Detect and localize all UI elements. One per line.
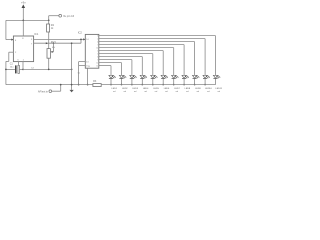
svg-text:red: red [197,90,200,93]
LED LED1 [109,75,113,78]
wire IC1 pin5 stub [18,62,20,66]
svg-text:red: red [207,90,210,93]
capacitor C1 [15,65,17,73]
wire pot bottom [48,58,50,69]
wire C1 left [6,68,15,70]
LED LED4 [140,75,144,78]
wire pot wiper [53,43,55,52]
svg-text:IC1: IC1 [34,32,39,36]
svg-text:LED2: LED2 [122,88,128,90]
junction EN-rail [78,84,80,86]
wire +9V rail [6,19,49,21]
svg-text:LED9: LED9 [195,88,201,90]
svg-text:6: 6 [97,57,98,59]
junction pot-bottom [48,69,50,71]
svg-text:LED4: LED4 [143,88,149,90]
ground [71,85,73,90]
junction pin8-rail [87,84,89,86]
wire pot top [48,43,50,48]
wire line2 drop [71,43,73,84]
LED LED2 [119,75,123,78]
wire bottom mid [23,68,72,70]
svg-text:red: red [134,90,137,93]
svg-text:red: red [186,90,189,93]
svg-text:red: red [165,90,168,93]
svg-text:LED1: LED1 [112,88,118,90]
LED LED3 [130,75,134,78]
LED LED7 [172,75,176,78]
junction LED7-rail [173,84,175,86]
svg-text:7: 7 [97,45,98,47]
junction C1-pin1 [22,69,24,71]
svg-text:5: 5 [97,54,98,56]
resistor R3 [93,84,101,87]
IC U2 4017 counter IC2 box [85,34,99,68]
wire IC2 output Q4 to LED7 [99,47,174,49]
svg-text:red: red [113,90,116,93]
terminal AF ext in [49,90,52,93]
svg-text:red: red [155,90,158,93]
wire IC2 output Q2 to LED9 [99,41,195,43]
LED LED10 [203,75,207,78]
wire bottom rail left [6,84,93,86]
svg-text:LED6: LED6 [164,88,170,90]
svg-text:10u: 10u [10,66,14,68]
potentiometer RV1 body [47,49,50,59]
junction LED8-rail [183,84,185,86]
svg-text:3: 3 [97,36,98,38]
junction line2-drop [71,42,73,44]
wire IC2 pin8 ground [87,68,89,84]
wire C1 right [19,68,23,70]
svg-text:LED5: LED5 [153,88,159,90]
junction LED4-rail [142,84,144,86]
svg-text:R2: R2 [51,24,55,27]
wire IC2 output Q9 to LED2 [99,62,122,64]
junction ground-rail [71,84,73,86]
wire IC2 output Q1 to LED10 [99,38,205,40]
wire IC2 output Q8 to LED3 [99,59,132,61]
svg-text:R3: R3 [93,80,97,83]
svg-text:red: red [144,90,147,93]
LED LED6 [161,75,165,78]
wire IC2 output Q0 to LED11 [99,35,216,37]
svg-text:red: red [123,90,126,93]
wire rail to IC1 reset pin [5,20,7,39]
junction LED6-rail [162,84,164,86]
svg-text:red: red [176,90,179,93]
svg-text:2: 2 [97,39,98,41]
svg-text:10: 10 [96,48,98,50]
wire AF in to rail [52,90,61,92]
svg-text:LED11: LED11 [216,88,223,90]
junction LED5-rail [152,84,154,86]
junction LED1-rail [110,84,112,86]
clock arrowhead [83,38,85,40]
junction LED9-rail [194,84,196,86]
svg-text:+9v: +9v [21,1,26,5]
wire IC2 enable pins [79,61,86,63]
IC U1 555 timer IC1 box [13,36,33,62]
wire IC1 pin2 to bottom rail [9,51,14,53]
junction power-rail [22,20,24,22]
LED LED8 [182,75,186,78]
LED LED9 [193,75,197,78]
LED LED11 [213,75,217,78]
power symbol +9V [22,4,26,8]
svg-text:AF/ext in: AF/ext in [38,89,49,93]
wire IC1 Vcc pin 8 [22,20,24,36]
wire IC1 pin3 to clock [34,38,85,40]
junction AF-rail [60,84,62,86]
junction rail-R2 [48,20,50,22]
junction LED2-rail [121,84,123,86]
svg-text:C1: C1 [10,63,14,66]
wire IC1 pin7 line [34,42,81,44]
wire IC2 output Q10 to LED1 [99,65,111,67]
resistor R2 [47,24,50,32]
junction LED3-rail [131,84,133,86]
svg-text:12: 12 [96,66,98,68]
svg-text:LED3: LED3 [132,88,138,90]
svg-text:0v: 0v [78,72,81,74]
junction mid-drop [71,69,73,71]
wire IC2 output Q3 to LED8 [99,44,184,46]
LED LED5 [151,75,155,78]
svg-text:9v pin 16: 9v pin 16 [63,14,74,18]
wire rail jog to terminal [48,16,50,21]
svg-text:LED8: LED8 [185,88,191,90]
svg-text:1: 1 [97,51,98,53]
svg-text:LED10: LED10 [205,88,212,90]
svg-text:9: 9 [97,60,98,62]
svg-text:1k: 1k [51,28,54,30]
wire IC2 output Q5 to LED6 [99,50,163,52]
wire rail to R2 [48,20,50,24]
junction clockline [80,39,82,41]
wire IC2 output Q6 to LED5 [99,53,153,55]
terminal 9v pin 16 [59,14,62,17]
wire IC1 pin1 stub [22,62,24,70]
junction LED10-rail [204,84,206,86]
svg-text:LED7: LED7 [174,88,180,90]
junction wiper-line [53,42,55,44]
wire R2 bottom [48,32,50,43]
wire line2 rise [80,39,82,43]
svg-text:11: 11 [96,63,98,65]
svg-text:4: 4 [97,42,98,44]
wire IC2 output Q7 to LED4 [99,56,143,58]
wire LED cathode rail [101,84,215,86]
svg-text:red: red [217,90,220,93]
svg-text:IC2: IC2 [78,31,83,35]
junction C1-left-wire [5,69,7,71]
